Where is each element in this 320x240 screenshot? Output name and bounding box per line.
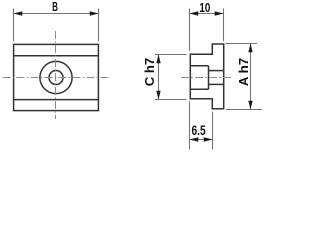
A arrow top <box>248 44 252 53</box>
horizontal centerline front <box>3 77 110 79</box>
6.5 dimension line <box>190 139 213 141</box>
front view bottom step line <box>14 99 99 101</box>
C dimension line <box>158 55 160 100</box>
svg-text:10: 10 <box>199 1 210 15</box>
10 extension line right <box>223 8 225 41</box>
10 arrow left <box>190 11 199 15</box>
C extension line top <box>155 54 187 56</box>
A extension line bottom <box>226 109 262 111</box>
through hole line top <box>209 70 224 72</box>
front view top step line <box>14 55 99 57</box>
A dimension line <box>250 44 252 110</box>
10 dimension line <box>190 13 224 15</box>
through hole line bottom <box>209 83 224 85</box>
front view outline <box>14 44 99 110</box>
horizontal centerline side <box>181 77 231 79</box>
B dimension line <box>14 13 99 15</box>
6.5 arrow right <box>204 137 213 141</box>
counterbore section <box>190 66 208 90</box>
svg-text:C h7: C h7 <box>142 58 157 87</box>
6.5 extension line left <box>189 101 191 149</box>
svg-text:B: B <box>52 0 58 14</box>
6.5 extension line right <box>212 112 214 150</box>
C arrow bottom <box>156 91 160 100</box>
vertical centerline front <box>55 31 57 119</box>
B arrow left <box>14 11 23 15</box>
A extension line top <box>225 43 257 45</box>
C extension line bottom <box>155 99 187 101</box>
10 arrow right <box>215 11 224 15</box>
6.5 arrow left <box>190 137 199 141</box>
side view outline <box>190 44 223 109</box>
B extension line right <box>98 8 100 41</box>
A arrow bottom <box>248 101 252 110</box>
10 extension line left <box>189 8 191 50</box>
C arrow top <box>156 55 160 64</box>
hole circle <box>49 71 63 85</box>
svg-text:6.5: 6.5 <box>192 123 207 138</box>
B extension line left <box>13 8 15 41</box>
svg-text:A h7: A h7 <box>236 58 251 87</box>
counterbore circle <box>40 61 72 93</box>
B arrow right <box>90 11 99 15</box>
